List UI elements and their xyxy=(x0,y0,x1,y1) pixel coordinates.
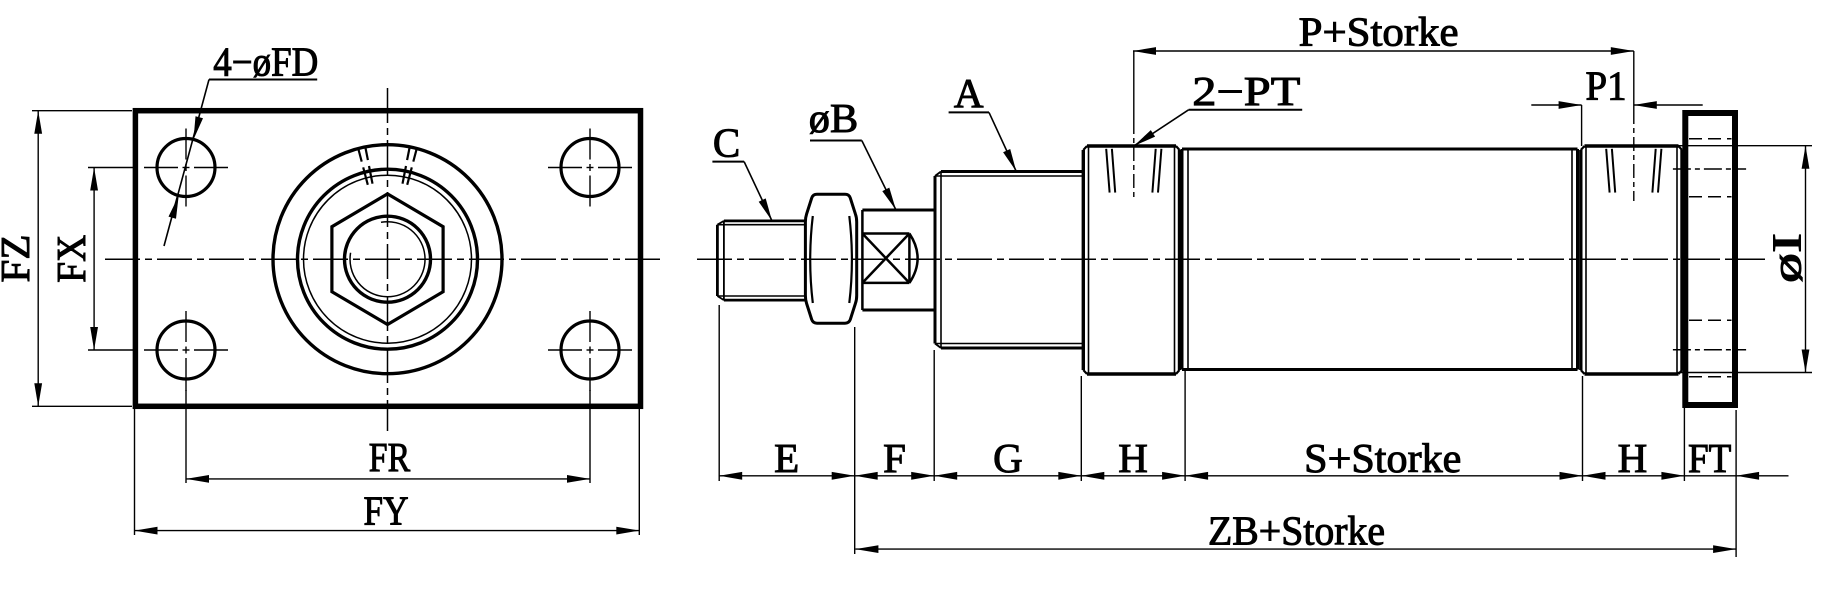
svg-text:øI: øI xyxy=(1764,233,1810,283)
svg-text:H: H xyxy=(1618,435,1648,481)
svg-text:C: C xyxy=(713,120,740,166)
svg-text:FX: FX xyxy=(48,235,94,283)
svg-text:FY: FY xyxy=(364,487,409,533)
svg-text:øB: øB xyxy=(809,95,858,141)
svg-text:4−øFD: 4−øFD xyxy=(213,38,318,84)
svg-text:2−PT: 2−PT xyxy=(1192,68,1300,114)
svg-text:H: H xyxy=(1118,435,1148,481)
svg-text:E: E xyxy=(774,435,799,481)
svg-text:FR: FR xyxy=(369,434,411,480)
svg-text:G: G xyxy=(993,435,1023,481)
svg-text:FT: FT xyxy=(1688,435,1731,481)
svg-text:A: A xyxy=(954,70,984,116)
svg-text:FZ: FZ xyxy=(0,235,38,283)
svg-text:P+Storke: P+Storke xyxy=(1299,8,1459,54)
svg-text:S+Storke: S+Storke xyxy=(1304,435,1461,481)
svg-text:P1: P1 xyxy=(1586,62,1627,108)
svg-text:ZB+Storke: ZB+Storke xyxy=(1208,507,1385,553)
svg-text:F: F xyxy=(883,435,906,481)
